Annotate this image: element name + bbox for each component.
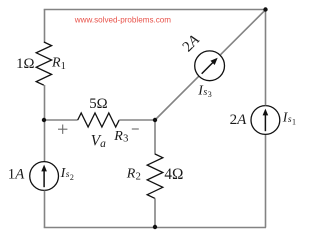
node junction top-right (263, 7, 267, 11)
wire left lower (44, 191, 46, 228)
wire left middle (44, 85, 46, 162)
svg-text:Is2: Is2 (60, 166, 74, 182)
svg-text:R2: R2 (126, 166, 141, 182)
svg-text:4Ω: 4Ω (164, 166, 183, 183)
svg-text:2A: 2A (230, 112, 248, 128)
wire diagonal upper (221, 10, 266, 55)
svg-text:www.solved-problems.com: www.solved-problems.com (74, 15, 172, 24)
node junction middle (153, 118, 157, 122)
resistor R2 (147, 154, 163, 198)
resistor R3 (78, 113, 120, 127)
svg-text:Is1: Is1 (282, 111, 296, 127)
current source Is1 (251, 106, 280, 135)
svg-text:Is3: Is3 (197, 84, 212, 99)
svg-text:1A: 1A (8, 167, 25, 183)
current source Is3 (195, 51, 225, 81)
svg-text:5Ω: 5Ω (89, 96, 107, 112)
wire diagonal lower (155, 76, 199, 120)
wire top (44, 9, 267, 11)
wire middle vertical lower (154, 198, 156, 227)
wire middle horizontal right (119, 119, 155, 121)
wire middle horizontal left (45, 119, 78, 121)
wire middle vertical upper (154, 120, 156, 155)
wire right upper (265, 10, 267, 106)
svg-text:R1: R1 (51, 56, 66, 72)
svg-text:1Ω: 1Ω (16, 56, 34, 72)
label minus sign (132, 128, 139, 130)
label plus sign (58, 125, 67, 134)
svg-text:R3: R3 (113, 129, 128, 145)
current source Is2 (30, 162, 59, 191)
wire bottom (44, 227, 266, 229)
node junction bottom (153, 225, 157, 229)
wire right lower (265, 135, 267, 228)
resistor R1 (36, 42, 51, 85)
node junction left (42, 118, 46, 122)
wire left upper (44, 10, 46, 43)
svg-text:Va: Va (91, 132, 106, 150)
svg-text:2A: 2A (180, 32, 204, 56)
